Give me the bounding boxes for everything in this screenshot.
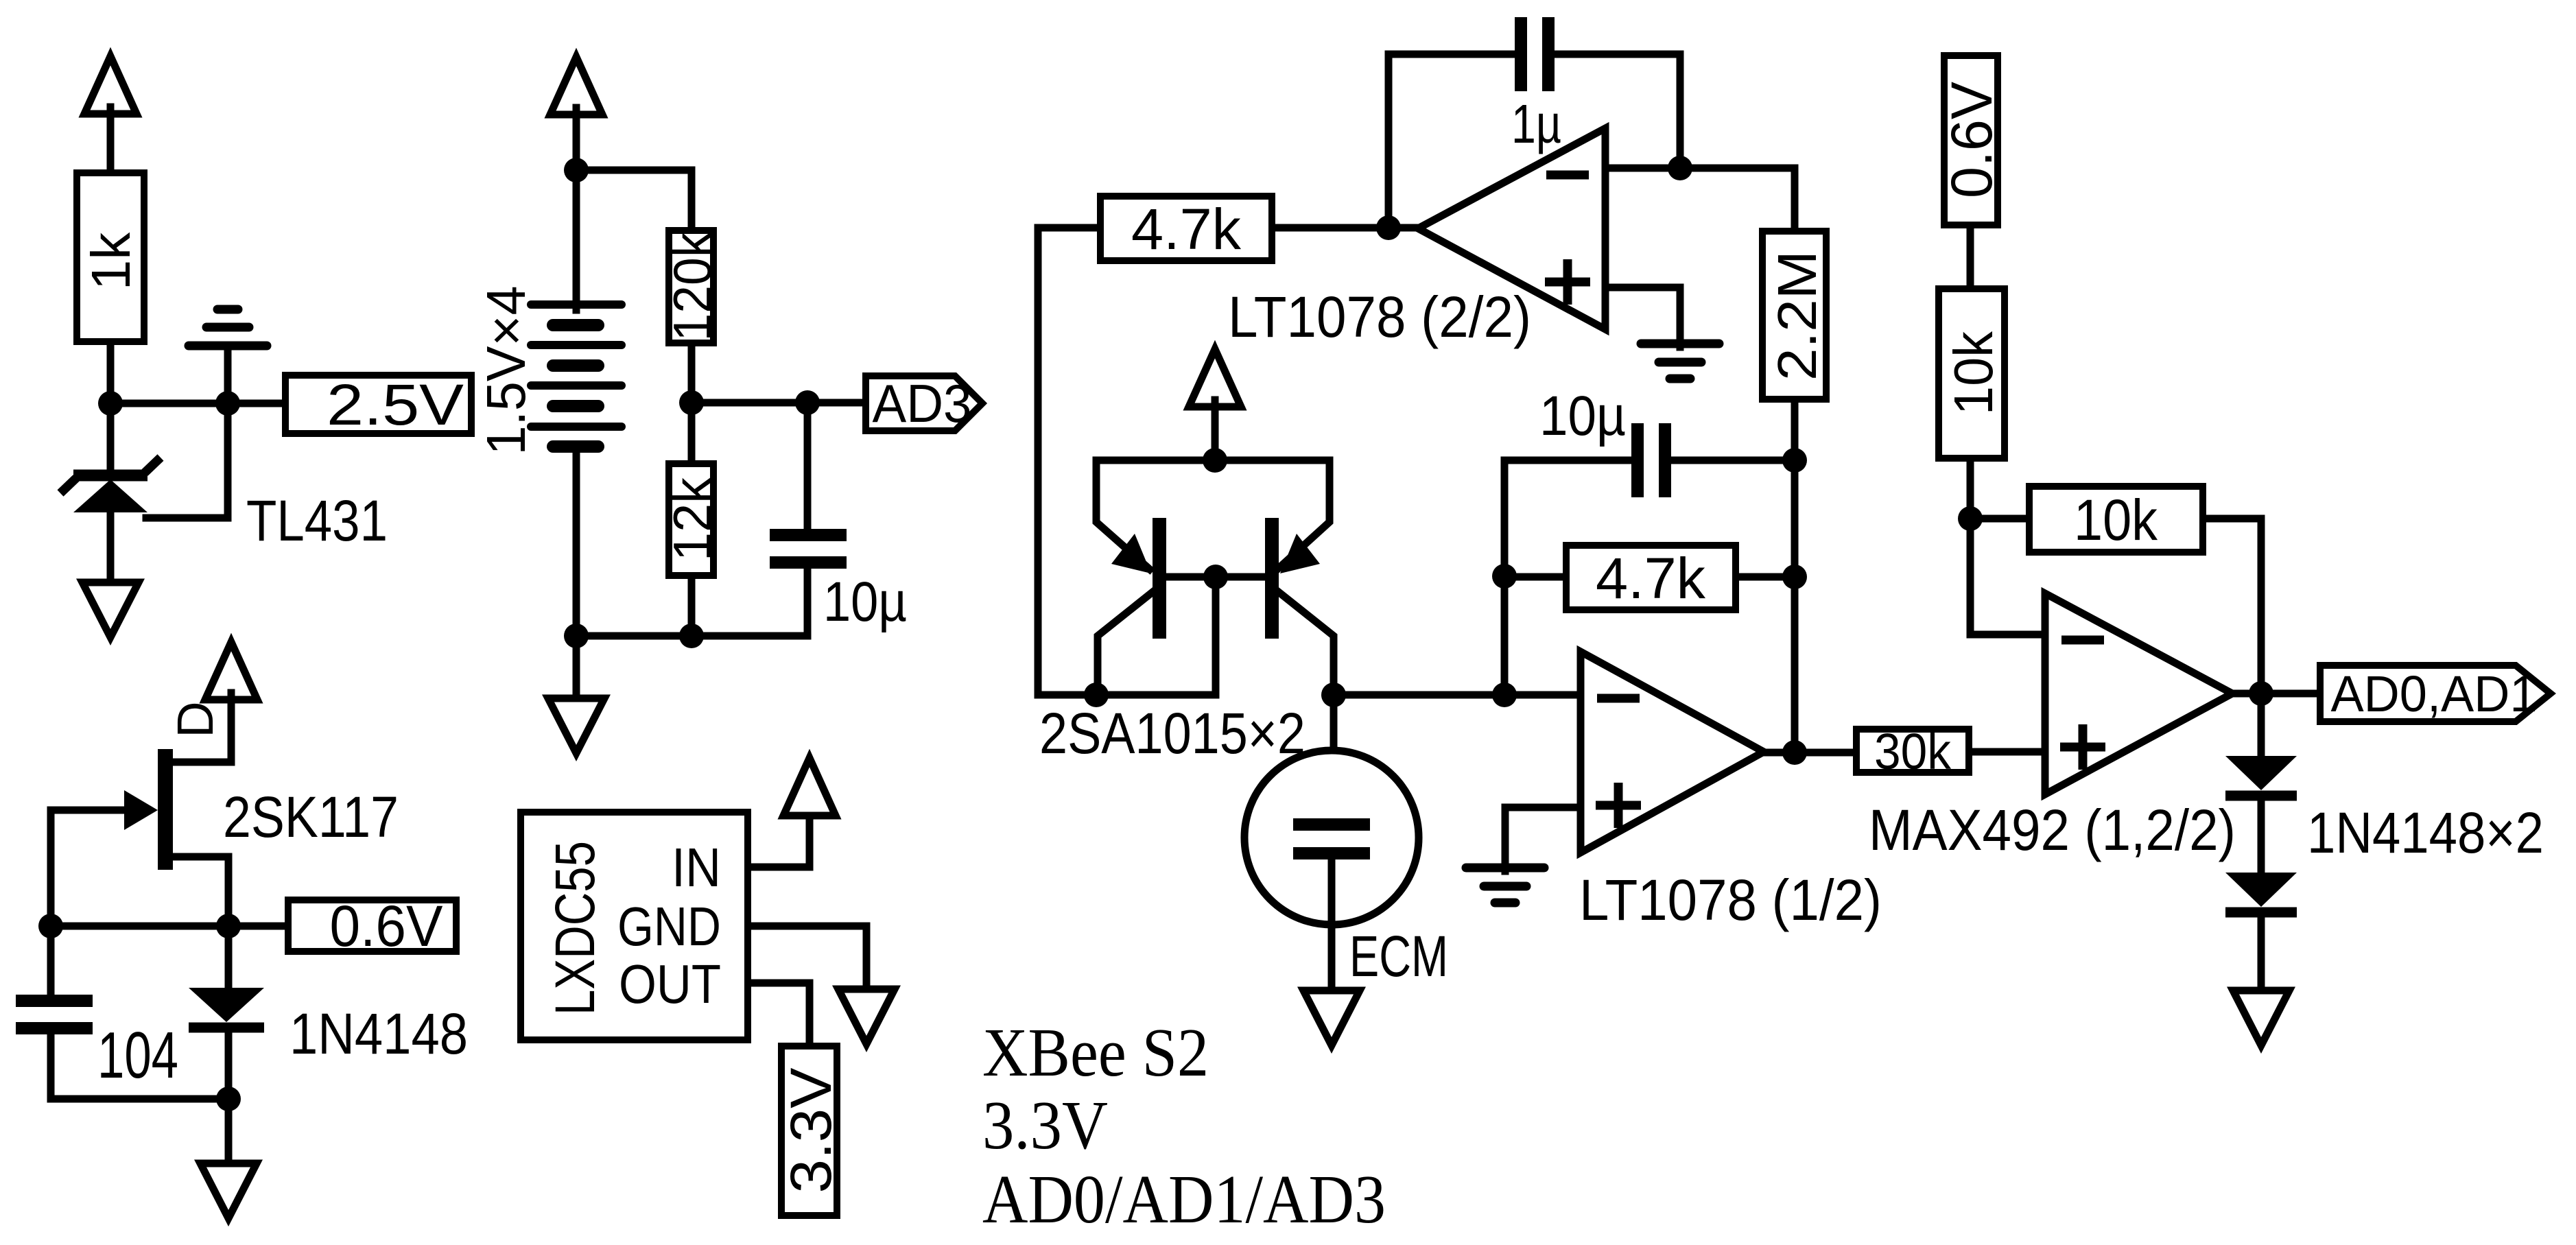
wire inverting input [1605,165,1680,172]
svg-text:0.6V: 0.6V [330,894,443,958]
ground arrow (JFET) [200,1163,257,1218]
wire emitter top bar [1096,457,1330,464]
wire OUT pin [751,983,810,1043]
svg-text:1k: 1k [80,232,141,290]
node B junction [215,391,240,416]
wire output to diode D1 [2258,693,2265,759]
wire to 10u cap [1504,457,1634,464]
wire battery node to plus plate [573,170,580,310]
ground arrow (diodes) [2233,991,2289,1045]
resistor 30k [1856,729,1969,772]
ground arrow (TL431) [82,582,139,637]
source junction [216,914,241,938]
wire 12k to rail [688,579,696,636]
divider junction [679,390,704,415]
svg-text:2SK117: 2SK117 [223,785,399,849]
AD3 junction [795,390,820,415]
ground arrow (LXDC GND) [838,989,895,1044]
svg-text:10k: 10k [2074,488,2158,552]
transistor Q1 2SA1015 base bar [1153,518,1166,639]
wire 1k to node [107,345,115,403]
wire arrow to emitter node [1212,400,1219,460]
microphone ECM [1244,750,1419,925]
wire signal rail [1334,691,1581,699]
TL431 shunt regulator [60,458,161,512]
op2 inverting junction [1668,156,1692,180]
resistor 1k [77,173,144,342]
wire 4.7k to right branch [1739,573,1795,581]
IC LXDC55 [521,812,748,1040]
svg-text:1N4148×2: 1N4148×2 [2307,801,2544,865]
wire node to 104 cap [47,926,55,998]
wire AD3 node to 10u cap [804,403,812,532]
wire node A to TL431 cathode [107,403,115,473]
svg-text:ECM: ECM [1349,924,1448,988]
wire right emitter [1277,460,1330,569]
emitter junction [1203,448,1227,473]
wire 2.2M bottom branch [1791,403,1799,752]
wire to AD3 tag [807,399,866,407]
svg-text:LT1078 (1/2): LT1078 (1/2) [1579,868,1882,932]
power arrow (JFET drain) [205,642,257,700]
wire 120k to AD3 node [688,346,696,403]
12k bottom junction [679,624,704,648]
wire gate to node [47,810,55,926]
wire AD3 node across [692,399,807,407]
wire node A to node B [110,400,228,407]
transistor 2SK117 channel bar [158,749,173,870]
svg-text:1.5V×4: 1.5V×4 [475,286,536,455]
resistor 4.7k (feedback) [1100,196,1272,261]
wire 104 cap to bottom [47,1031,55,1099]
wire to feedback 10k [1970,515,2026,523]
svg-text:4.7k: 4.7k [1596,546,1706,610]
wire arrow to R 1k [107,107,115,171]
battery bottom junction [564,624,589,648]
wire GND pin [751,926,866,986]
wire D2 to ground [2258,916,2265,988]
wire rail to ground arrow [573,636,580,696]
svg-text:2.2M: 2.2M [1766,250,1828,381]
svg-text:3.3V: 3.3V [779,1068,843,1194]
earth ground (op2) [1641,344,1719,379]
wire right collector [1276,590,1334,695]
wire to ground arrow [225,1099,233,1161]
power arrow (LXDC IN) [783,758,836,816]
wire gate-source node [51,923,228,930]
MAX492 output junction [2249,681,2273,706]
wire to 4.7k [1504,573,1563,581]
wire IN pin [751,809,810,867]
wire bias to inverting input [1970,519,2045,635]
op-amp MAX492 [2045,593,2232,794]
wire TL431 ref feedback [146,403,228,518]
wire op1 output [1764,749,1853,757]
wire ECM to ground [1328,859,1336,988]
net tag AD3 [866,376,982,431]
svg-text:2SA1015×2: 2SA1015×2 [1039,701,1305,766]
earth ground (op1) [1466,868,1544,903]
power arrow VCC (battery top) [550,57,602,115]
4.7k left junction [1492,564,1517,589]
capacitor 10u (divider) [770,529,847,569]
svg-text:OUT: OUT [619,953,721,1015]
svg-text:12k: 12k [662,477,722,561]
wire to 0.6V tag [228,923,285,930]
wire node B to 2.5V tag [228,400,282,407]
svg-text:XBee S2: XBee S2 [982,1014,1209,1091]
wire noninverting input [1505,804,1581,811]
wire arrow to battery node [573,108,580,170]
svg-text:GND: GND [617,896,721,957]
resistor 12k [669,464,713,576]
wire source [173,857,228,926]
op2 output junction [1376,215,1401,240]
ECM junction [1321,683,1346,707]
voltage tag 0.6V [288,900,456,951]
svg-text:MAX492 (1,2/2): MAX492 (1,2/2) [1869,798,2236,862]
wire 1u cap to inverting input [1555,54,1680,168]
wire 10u cap to junction [1671,457,1795,464]
wire MAX492 output [2232,690,2320,698]
resistor 2.2M [1762,231,1826,399]
capacitor 1u [1515,17,1555,91]
svg-text:10µ: 10µ [1539,385,1626,447]
voltage tag 2.5V [285,375,471,434]
wire node to diode 1N4148 [225,926,233,991]
4.7k right junction [1782,565,1807,589]
svg-text:104: 104 [97,1019,178,1092]
resistor 4.7k (filter) [1566,545,1736,610]
svg-text:10k: 10k [1943,331,2004,415]
wire noninverting to ground [1605,287,1680,347]
op-amp LT1078 (1/2) [1581,652,1764,853]
bottom junction [216,1087,241,1111]
op1 output junction [1782,740,1807,765]
wire to earth (op1) [1502,807,1509,871]
wire earth stem (TL431 node) [224,350,232,403]
2SK117 gate arrow [124,790,158,830]
wire 0.6V to 10k [1967,228,1974,285]
gate junction [38,914,63,938]
diode D1 1N4148 [2225,756,2297,796]
svg-text:1µ: 1µ [1511,93,1561,154]
wire diode to bottom node [225,1033,233,1099]
base junction [1203,565,1228,589]
wire 10k to junction [1967,462,1974,519]
wire ground rail [576,632,807,640]
svg-text:3.3V: 3.3V [982,1087,1108,1163]
ground arrow (ECM) [1303,991,1360,1045]
wire 10u cap to rail [804,569,812,636]
battery 1.5V x4 [531,305,622,447]
svg-text:1N4148: 1N4148 [289,1001,468,1066]
svg-text:30k: 30k [1874,723,1952,780]
wire bases down [1212,577,1220,695]
rail junction (4.7k/10u) [1492,683,1517,707]
wire rail to ECM [1330,695,1338,822]
voltage tag 3.3V [781,1046,837,1216]
resistor 10k (bias) [1939,289,2005,458]
svg-text:4.7k: 4.7k [1131,197,1242,261]
svg-text:AD0,AD1: AD0,AD1 [2331,665,2538,722]
wire 4.7k to op-amp output [1275,224,1418,232]
svg-text:LXDC55: LXDC55 [544,841,606,1015]
bias junction [1958,506,1983,531]
node A junction [98,391,123,416]
wire node to 12k [688,403,696,460]
wire TL431 anode to ground [107,512,115,580]
resistor 10k (feedback) [2029,486,2203,552]
wire feedback line to bases [1038,228,1216,695]
svg-text:IN: IN [672,837,721,898]
svg-text:2.5V: 2.5V [327,372,464,437]
svg-text:TL431: TL431 [246,488,388,553]
battery top junction [564,158,589,182]
net tag AD0,AD1 [2320,665,2551,722]
resistor 120k [669,230,713,343]
wire output to 1u cap [1389,54,1517,228]
power arrow (2SA1015 emitters) [1189,349,1241,407]
svg-text:D: D [167,701,224,737]
wire battery minus to rail [573,447,580,636]
earth ground (inverted, TL431 node) [189,309,267,346]
left collector junction [1084,683,1109,707]
wire bottom node [51,1095,228,1103]
wire 10u/4.7k left branch [1501,460,1509,695]
wire left emitter [1096,460,1150,569]
diode 1N4148 [189,988,264,1028]
wire to 2.2M [1680,168,1795,228]
diode D2 1N4148 [2225,873,2297,912]
wire base link [1166,573,1265,581]
svg-text:10µ: 10µ [823,571,907,633]
transistor Q2 2SA1015 base bar [1265,518,1279,639]
wire left collector [1098,590,1155,695]
wire gate [51,807,127,814]
wire battery node to 120k [576,170,692,227]
wire 10k to output [2206,519,2261,693]
svg-text:LT1078 (2/2): LT1078 (2/2) [1228,285,1531,349]
op-amp LT1078 (2/2) [1418,128,1605,329]
svg-text:AD3: AD3 [873,373,972,434]
2.2M bottom junction [1782,448,1807,473]
wire to 4.7k (feedback) [1038,224,1097,232]
wire drain [173,693,231,762]
power arrow VCC (1k top) [84,56,137,114]
Q1 emitter arrow [1111,534,1151,573]
ground arrow (battery) [548,698,604,753]
capacitor 10u (filter) [1631,423,1671,497]
svg-text:0.6V: 0.6V [1939,82,2004,198]
wire D1 to D2 [2258,800,2265,875]
svg-text:AD0/AD1/AD3: AD0/AD1/AD3 [982,1161,1386,1237]
svg-text:120k: 120k [662,232,722,342]
voltage tag 0.6V (bias) [1944,56,1998,225]
capacitor 104 [16,995,93,1034]
wire 30k to MAX492 [1972,748,2045,756]
Q2 emitter arrow [1280,534,1320,573]
